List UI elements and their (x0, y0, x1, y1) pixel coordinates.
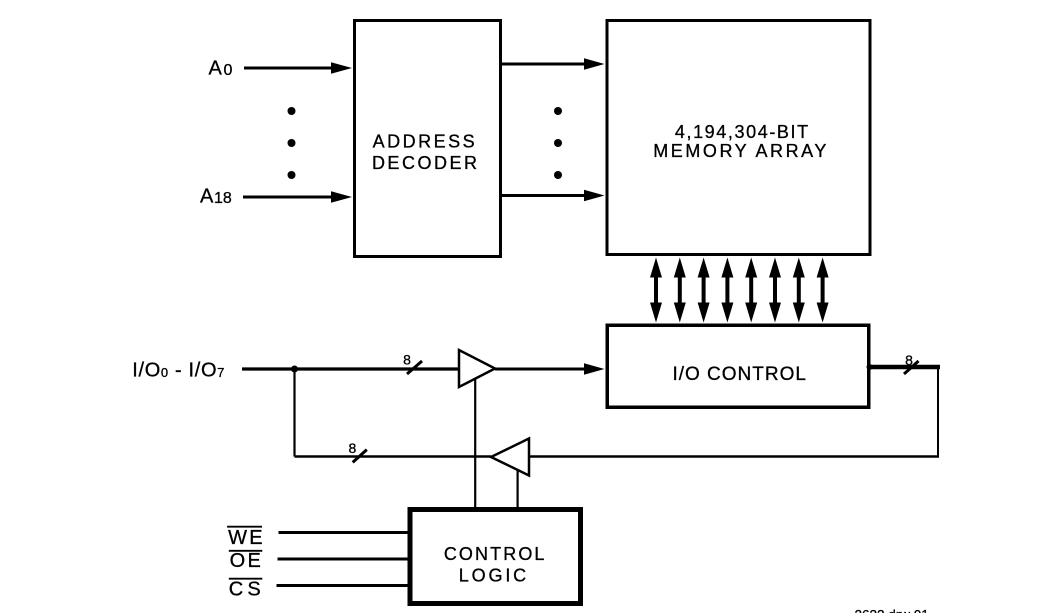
svg-text:A0: A0 (209, 58, 233, 80)
svg-text:2622 drw 01: 2622 drw 01 (855, 608, 929, 613)
svg-text:4,194,304-BIT: 4,194,304-BIT (675, 122, 810, 142)
svg-text:I/O CONTROL: I/O CONTROL (672, 364, 807, 385)
svg-text:LOGIC: LOGIC (459, 566, 529, 586)
svg-text:OE: OE (230, 550, 264, 572)
svg-text:MEMORY ARRAY: MEMORY ARRAY (653, 141, 829, 161)
svg-text:CS: CS (229, 579, 265, 601)
svg-text:CONTROL: CONTROL (444, 544, 547, 564)
svg-text:8: 8 (905, 352, 913, 368)
svg-text:A18: A18 (200, 186, 232, 208)
svg-text:ADDRESS: ADDRESS (373, 132, 478, 152)
svg-text:8: 8 (403, 352, 411, 368)
svg-text:DECODER: DECODER (372, 153, 480, 173)
svg-text:8: 8 (349, 440, 357, 456)
svg-text:I/O0 - I/O7: I/O0 - I/O7 (132, 360, 225, 382)
svg-text:WE: WE (228, 527, 265, 549)
